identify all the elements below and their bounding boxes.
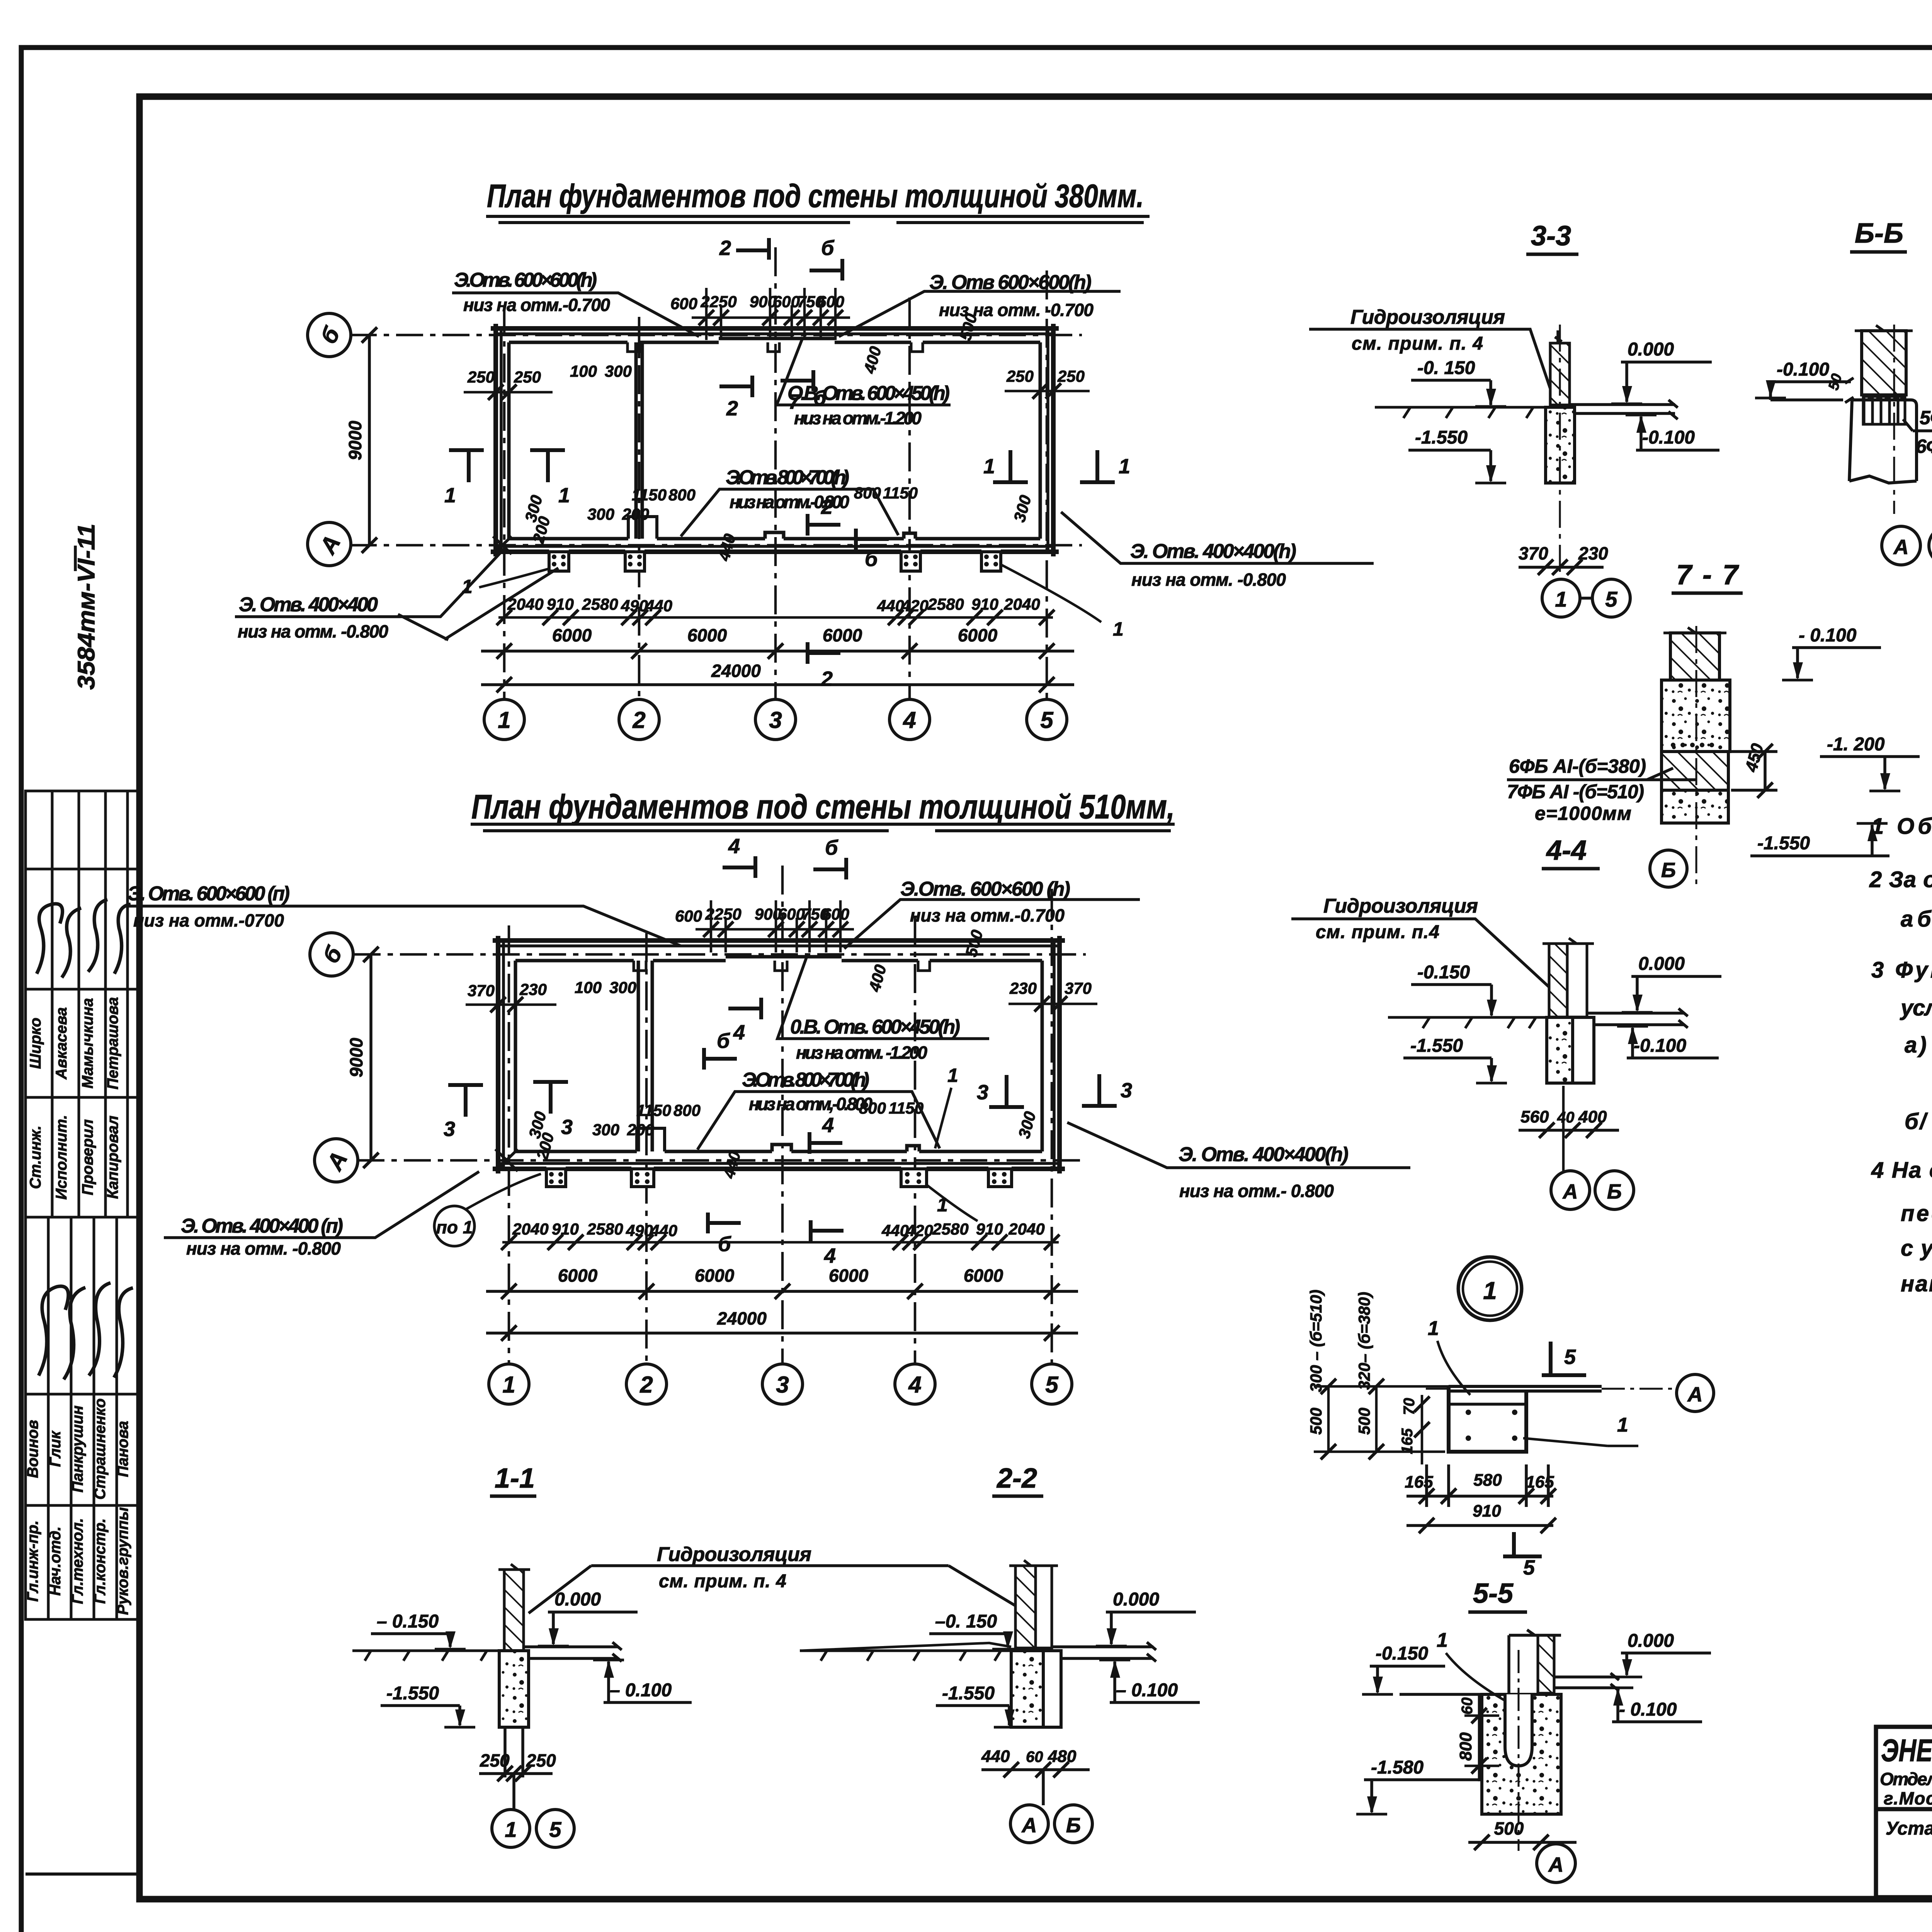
svg-text:б/ грунтовые воды отсутс: б/ грунтовые воды отсутствуют.	[1905, 1109, 1932, 1134]
section 4-4 wall	[1549, 944, 1567, 1017]
svg-text:Э. Отв. 400×400 (п): Э. Отв. 400×400 (п)	[181, 1215, 343, 1237]
svg-text:2: 2	[821, 667, 833, 690]
svg-text:Б: Б	[1661, 859, 1676, 882]
svg-text:6ФбАI - (б=510): 6ФбАI - (б=510)	[1916, 435, 1932, 457]
svg-text:5-5: 5-5	[1473, 1578, 1514, 1609]
section 1-1 wall	[504, 1570, 524, 1651]
svg-text:1: 1	[1437, 1629, 1448, 1651]
plan2 po1 circle	[434, 1206, 474, 1246]
svg-text:5: 5	[1045, 1372, 1059, 1398]
svg-text:2580: 2580	[932, 1220, 968, 1238]
plan1 250 dim right	[1005, 383, 1090, 399]
svg-text:250: 250	[1006, 367, 1034, 385]
svg-text:4: 4	[824, 1244, 836, 1267]
svg-text:4: 4	[822, 1114, 834, 1137]
plan1 9000 dim line	[362, 327, 377, 553]
svg-text:Гл.констр.: Гл.констр.	[92, 1518, 109, 1604]
section 5-5 U channel	[1505, 1694, 1532, 1766]
section 2-2 axis circles A B	[1042, 1770, 1045, 1805]
sidebar upper table titles column	[27, 997, 121, 1199]
svg-text:1: 1	[983, 455, 995, 478]
plan1 section mark 1 right inner	[993, 450, 1028, 482]
plan2 section mark 4 bottom pair	[810, 1132, 842, 1154]
plan1 right wall	[1040, 324, 1053, 556]
plan1 6000 labels	[552, 625, 998, 645]
plan2 top wall	[493, 940, 1065, 971]
svg-text:0.000: 0.000	[1638, 954, 1685, 974]
svg-text:Петрашова: Петрашова	[104, 997, 121, 1089]
plan1 section mark 1 left outer	[449, 450, 484, 482]
svg-text:300: 300	[587, 505, 614, 523]
svg-text:Установка синхронных: Установка синхронных	[1886, 1818, 1932, 1839]
detail 1 section mark 5 top	[1542, 1342, 1586, 1375]
svg-text:6000: 6000	[829, 1265, 869, 1286]
svg-text:800: 800	[668, 486, 696, 504]
svg-text:Панова: Панова	[114, 1421, 131, 1477]
plan2 leader L4	[697, 1092, 940, 1150]
plan1 axis circle A	[308, 522, 351, 566]
svg-text:б: б	[718, 1233, 731, 1256]
svg-text:1: 1	[1555, 587, 1567, 611]
svg-text:-1.550: -1.550	[942, 1683, 995, 1704]
plan2 small dim labels	[468, 905, 1092, 1240]
section 1-1 axis circles 1 5	[512, 1774, 515, 1810]
plan1 small dim labels	[467, 293, 1085, 615]
svg-text:1 Общие указания см. лист: 1 Общие указания см. лист АС-VI- 2 .	[1871, 814, 1932, 839]
svg-text:низ на отм. -0.700: низ на отм. -0.700	[939, 300, 1094, 320]
svg-text:250: 250	[1057, 367, 1085, 385]
svg-text:Э. Отв 600×600(h): Э. Отв 600×600(h)	[929, 271, 1092, 294]
plan2 section mark 3 right inner	[989, 1075, 1024, 1107]
section 2-2 ground line	[800, 1651, 1011, 1661]
plan1 left wall	[496, 324, 509, 556]
svg-text:0.000: 0.000	[1628, 1631, 1674, 1651]
plan1 leader L4	[681, 489, 898, 536]
svg-text:9000: 9000	[345, 420, 365, 460]
plan1 axis A dashdot	[350, 544, 1082, 547]
detail 1 circle A	[1677, 1374, 1714, 1412]
svg-text:А: А	[1548, 1853, 1564, 1876]
svg-text:250: 250	[480, 1750, 510, 1770]
svg-text:по 1: по 1	[436, 1217, 473, 1237]
svg-text:низ на отм.- 0.800: низ на отм.- 0.800	[1179, 1181, 1334, 1201]
plan1 grid numbers	[498, 707, 1054, 733]
svg-text:580: 580	[1473, 1471, 1502, 1490]
section B-B foundation outline	[1849, 400, 1917, 483]
svg-text:е=1000мм: е=1000мм	[1535, 803, 1631, 824]
plan2 grid verticals dashdot	[509, 866, 1052, 1364]
svg-text:-0. 150: -0. 150	[1417, 358, 1475, 378]
plan2 dim row 6000	[486, 1284, 1078, 1299]
detail 1 axis dashdot	[1426, 1388, 1677, 1390]
section 5-5 foundation	[1482, 1694, 1561, 1814]
plan1 leader L5 right	[1061, 512, 1374, 563]
svg-text:0.В. Отв. 600×450(h): 0.В. Отв. 600×450(h)	[790, 1016, 960, 1038]
plan2 section mark b bottom	[708, 1213, 741, 1233]
svg-text:– 0.100: – 0.100	[1116, 1680, 1178, 1701]
plan1 dim row 6000	[481, 643, 1074, 659]
plan1 grid circles row	[484, 699, 1067, 740]
section 3-3 floor slab	[1570, 400, 1678, 419]
svg-text:250: 250	[514, 368, 541, 386]
plan1 small dims row	[497, 610, 1054, 625]
svg-text:5: 5	[1564, 1345, 1576, 1369]
svg-text:с уплотняющей добавкой ( це: с уплотняющей добавкой ( церезит, алюмин…	[1901, 1236, 1932, 1261]
plan1 section mark 2 top	[736, 238, 769, 260]
svg-text:1150: 1150	[636, 1101, 671, 1119]
svg-text:-1.550: -1.550	[1410, 1036, 1463, 1056]
svg-text:натрия, битумные и латексные: натрия, битумные и латексные эмульсии).	[1901, 1271, 1932, 1296]
svg-text:низ на отм. -0.800: низ на отм. -0.800	[238, 621, 388, 641]
svg-text:60: 60	[1459, 1697, 1476, 1715]
plan2 partition wall grid2	[638, 961, 652, 1151]
svg-text:370: 370	[1065, 979, 1092, 997]
plan2 leader L6 left	[164, 1172, 479, 1238]
section 1-1 foundation	[499, 1651, 529, 1727]
svg-text:Э.Отв. 800×700(h): Э.Отв. 800×700(h)	[726, 466, 849, 489]
plan1 texts	[314, 293, 1085, 733]
svg-text:6ФБ АI-(б=380): 6ФБ АI-(б=380)	[1509, 755, 1646, 777]
svg-text:24000: 24000	[717, 1308, 767, 1328]
section 1-1 floor slab	[524, 1642, 622, 1662]
svg-text:низ на отм,-0.800: низ на отм,-0.800	[749, 1094, 872, 1114]
title block grid	[1876, 1727, 1932, 1897]
svg-text:Б: Б	[1607, 1180, 1622, 1203]
svg-text:-1.550: -1.550	[1757, 833, 1810, 854]
svg-text:б: б	[825, 836, 838, 859]
svg-text:см. прим. п.4: см. прим. п.4	[1316, 922, 1439, 942]
svg-text:600: 600	[817, 293, 844, 311]
svg-text:320– (б=380): 320– (б=380)	[1355, 1292, 1373, 1390]
svg-text:План фундаментов под стены то: План фундаментов под стены толщиной 380м…	[487, 178, 1144, 214]
plan1 bottom wall	[491, 517, 1059, 552]
svg-text:230: 230	[1009, 979, 1037, 997]
svg-text:-0.100: -0.100	[1634, 1036, 1686, 1056]
svg-text:3584тм-VI-11: 3584тм-VI-11	[73, 524, 100, 690]
plan1 foundation pads	[549, 552, 1001, 571]
plan2 corner diagonals	[495, 1149, 518, 1171]
svg-text:1: 1	[505, 1817, 517, 1842]
svg-text:2: 2	[726, 397, 738, 420]
svg-text:9000: 9000	[346, 1037, 366, 1077]
svg-text:3: 3	[561, 1116, 573, 1139]
section 7-7 wall	[1670, 633, 1719, 680]
svg-text:– 0.100: – 0.100	[610, 1680, 672, 1701]
svg-text:1: 1	[444, 484, 456, 507]
svg-text:Нач.отд.: Нач.отд.	[47, 1526, 64, 1595]
svg-text:Страшненко: Страшненко	[92, 1398, 109, 1500]
plan2 section mark 3 left outer	[448, 1085, 483, 1117]
section 4-4 floor slab	[1587, 1009, 1688, 1028]
svg-text:Исполнит.: Исполнит.	[53, 1115, 70, 1200]
svg-text:-0.100: -0.100	[1642, 427, 1695, 448]
svg-text:А: А	[1021, 1814, 1037, 1837]
plan1 top dim ticks	[692, 288, 850, 340]
svg-text:Руков.группы: Руков.группы	[114, 1507, 131, 1615]
svg-text:условия:: условия:	[1900, 995, 1932, 1020]
plan2 texts	[318, 905, 1092, 1398]
svg-text:24000: 24000	[711, 661, 761, 681]
svg-text:Проверил: Проверил	[79, 1119, 96, 1195]
plan2 section mark 3 right outer	[1082, 1074, 1117, 1106]
svg-text:План фундаментов под стены то: План фундаментов под стены толщиной 510м…	[471, 787, 1175, 826]
svg-text:1: 1	[947, 1065, 958, 1086]
svg-text:- 0.100: - 0.100	[1799, 625, 1857, 646]
plan1 top wall	[491, 328, 1059, 352]
svg-text:600: 600	[773, 293, 800, 311]
svg-text:2: 2	[639, 1372, 653, 1398]
svg-text:370: 370	[1519, 543, 1548, 563]
section 3-3 ground line	[1375, 407, 1550, 418]
svg-text:230: 230	[519, 980, 547, 998]
svg-text:165: 165	[1526, 1473, 1554, 1492]
svg-text:ЭНЕРГОСЕТЬПРОЕКТ: ЭНЕРГОСЕТЬПРОЕКТ	[1881, 1733, 1932, 1768]
svg-text:Э.Отв. 800×700(h): Э.Отв. 800×700(h)	[742, 1069, 869, 1091]
svg-text:4: 4	[903, 707, 916, 733]
detail 1 wall lines	[1449, 1386, 1602, 1391]
svg-text:420: 420	[901, 597, 929, 615]
svg-text:1150: 1150	[883, 484, 918, 502]
svg-text:440: 440	[881, 1221, 909, 1240]
section 5-5 wall	[1538, 1635, 1554, 1693]
svg-text:1: 1	[937, 1194, 948, 1216]
svg-text:б: б	[813, 386, 827, 410]
svg-text:-1.550: -1.550	[1415, 427, 1468, 448]
svg-text:Б-Б: Б-Б	[1855, 218, 1903, 249]
plan2 section mark b mid	[704, 1048, 737, 1070]
svg-text:6000: 6000	[558, 1265, 598, 1286]
svg-text:910: 910	[976, 1220, 1003, 1238]
svg-text:3: 3	[977, 1081, 988, 1104]
plan1 axis circle B	[308, 313, 351, 357]
svg-text:Авкасева: Авкасева	[53, 1007, 70, 1080]
svg-text:Капировал: Капировал	[104, 1116, 121, 1199]
plan1 leader L6 left	[235, 549, 558, 640]
svg-text:600: 600	[778, 905, 805, 923]
plan1 250 dim left	[464, 384, 553, 400]
svg-text:2580: 2580	[587, 1220, 623, 1238]
svg-text:А: А	[1893, 536, 1909, 559]
svg-text:5ФбАI - (б=380): 5ФбАI - (б=380)	[1920, 407, 1932, 429]
plan2 leader L1	[124, 906, 681, 946]
plan1 section mark 2 inner	[719, 376, 752, 397]
svg-text:-1. 200: -1. 200	[1827, 734, 1885, 755]
plan2 bottom wall	[493, 1128, 1065, 1169]
svg-text:низ на отм. -0.800: низ на отм. -0.800	[1131, 570, 1286, 590]
plan2 9000 dim line	[363, 947, 379, 1168]
svg-text:5: 5	[549, 1817, 561, 1842]
svg-text:песчаная гидроизоляция сос: песчаная гидроизоляция состава 1:2	[1901, 1201, 1932, 1226]
detail 1 section mark 5 bottom	[1503, 1532, 1542, 1556]
svg-text:300 – (б=510): 300 – (б=510)	[1307, 1289, 1325, 1392]
svg-text:4: 4	[733, 1021, 745, 1044]
svg-text:б: б	[821, 236, 835, 260]
svg-text:-0.150: -0.150	[1417, 962, 1470, 983]
section 3-3 foundation	[1546, 407, 1575, 483]
detail 1 block	[1449, 1386, 1526, 1452]
plan2 section mark b top	[813, 858, 846, 879]
svg-text:2040: 2040	[1008, 1220, 1044, 1238]
section 1-1 ground line	[352, 1651, 504, 1661]
sidebar upper signatures squiggles	[37, 900, 131, 978]
section 5-5 floor slab	[1554, 1673, 1619, 1691]
svg-text:3 Фундаменты запроектирован: 3 Фундаменты запроектированы на следующи…	[1871, 957, 1932, 983]
svg-text:4-4: 4-4	[1546, 835, 1587, 866]
svg-text:490: 490	[621, 597, 648, 615]
section B-B circles A B	[1882, 526, 1920, 565]
sidebar doc number 3584tm-VI-11	[73, 524, 100, 690]
svg-text:800: 800	[1456, 1732, 1475, 1761]
svg-text:г.Москва: г.Москва	[1884, 1788, 1932, 1808]
svg-text:910: 910	[552, 1220, 579, 1238]
section 7-7 block2 hatched	[1662, 752, 1728, 790]
svg-text:2040: 2040	[512, 1220, 548, 1238]
plan1 section mark 1 right outer	[1080, 450, 1115, 482]
svg-text:Б: Б	[1066, 1814, 1081, 1837]
plan1 corner diagonals	[493, 536, 512, 554]
svg-text:1: 1	[1617, 1414, 1628, 1436]
svg-text:6000: 6000	[695, 1265, 735, 1286]
svg-text:6000: 6000	[823, 625, 862, 645]
svg-text:3: 3	[444, 1117, 455, 1141]
svg-text:2 За отметку чистого пол: 2 За отметку чистого пола 0.000 принята	[1869, 867, 1932, 892]
svg-text:2: 2	[719, 236, 731, 260]
svg-text:низ на отм.-0.700: низ на отм.-0.700	[463, 295, 610, 315]
svg-text:4: 4	[728, 835, 740, 858]
detail 1 big circle	[1458, 1257, 1522, 1320]
sidebar bottom cell line	[26, 1872, 139, 1876]
svg-text:-0.150: -0.150	[1376, 1643, 1428, 1664]
svg-text:800: 800	[673, 1101, 701, 1119]
svg-text:6000: 6000	[687, 625, 727, 645]
sidebar upper signature table	[26, 791, 139, 1217]
plan2 6000 labels	[558, 1265, 1003, 1286]
svg-text:0.000: 0.000	[554, 1589, 601, 1610]
plan1 section mark b top	[810, 259, 842, 281]
svg-text:600: 600	[670, 294, 697, 313]
svg-text:Э. Отв. 400×400(h): Э. Отв. 400×400(h)	[1130, 540, 1296, 563]
svg-text:600: 600	[675, 907, 702, 925]
plan2 axis A dashdot	[357, 1159, 1086, 1162]
svg-text:800: 800	[854, 484, 881, 502]
svg-text:низ на отм. -0.800: низ на отм. -0.800	[186, 1238, 341, 1259]
svg-text:440: 440	[877, 597, 904, 615]
svg-text:Ширко: Ширко	[27, 1018, 44, 1069]
plan2 leader L2	[844, 900, 1140, 949]
plan2 leader 1 pads right	[927, 1185, 978, 1221]
svg-text:165: 165	[1399, 1428, 1416, 1454]
svg-text:Глик: Глик	[47, 1430, 64, 1467]
svg-text:-1.580: -1.580	[1371, 1757, 1423, 1778]
svg-text:– 0.150: – 0.150	[377, 1611, 439, 1632]
svg-text:1: 1	[1113, 618, 1124, 640]
plan1 leader L1	[452, 293, 699, 337]
plan2 foundation pads	[546, 1169, 1012, 1187]
svg-text:Ст.инж.: Ст.инж.	[27, 1126, 44, 1189]
plan2 section mark 4 top	[723, 856, 755, 878]
plan1 dim row 24000	[481, 677, 1074, 692]
svg-text:6000: 6000	[552, 625, 592, 645]
svg-text:1: 1	[1119, 455, 1130, 478]
plan2 axis B dashdot	[354, 953, 1086, 956]
svg-text:2: 2	[821, 495, 833, 519]
svg-text:40: 40	[1557, 1109, 1575, 1126]
svg-text:165: 165	[1405, 1473, 1433, 1492]
plan2 axis circle A	[315, 1139, 358, 1182]
svg-text:1: 1	[462, 576, 473, 597]
svg-text:910: 910	[1473, 1502, 1501, 1520]
svg-text:100: 100	[570, 362, 597, 380]
section 4-4 foundation	[1547, 1017, 1573, 1083]
plan1 leader 1 pads right	[1002, 565, 1101, 622]
svg-text:7: 7	[788, 390, 801, 413]
svg-text:910: 910	[547, 595, 574, 613]
svg-text:2580: 2580	[927, 595, 964, 613]
svg-text:низ на отм.-1.200: низ на отм.-1.200	[794, 408, 922, 428]
plan1 title underline	[486, 216, 1150, 223]
svg-text:см. прим. п. 4: см. прим. п. 4	[659, 1571, 786, 1592]
svg-text:500: 500	[1494, 1818, 1524, 1838]
svg-text:1: 1	[502, 1372, 515, 1398]
svg-text:2040: 2040	[1003, 595, 1040, 613]
svg-text:440: 440	[645, 597, 672, 615]
svg-text:440: 440	[981, 1747, 1010, 1766]
svg-text:6000: 6000	[964, 1265, 1003, 1286]
svg-text:7 - 7: 7 - 7	[1676, 560, 1739, 590]
section 2-2 foundation	[1011, 1651, 1043, 1727]
svg-text:Э. Отв. 600×600 (п): Э. Отв. 600×600 (п)	[128, 883, 290, 905]
plan2 title underline	[471, 824, 1175, 831]
section 7-7 block3 concrete	[1662, 790, 1728, 823]
svg-text:Гидроизоляция: Гидроизоляция	[1323, 895, 1478, 917]
svg-text:Гидроизоляция: Гидроизоляция	[1350, 306, 1505, 328]
section 2-2 floor slab	[1052, 1642, 1156, 1662]
svg-text:3: 3	[776, 1372, 789, 1398]
svg-text:б: б	[865, 548, 878, 571]
svg-text:3: 3	[1121, 1079, 1132, 1102]
plan2 370 230 dim left	[466, 997, 556, 1012]
plan2 leader L3	[777, 954, 989, 1039]
svg-text:А: А	[1687, 1383, 1703, 1406]
svg-text:3: 3	[769, 707, 782, 733]
svg-text:4 На отметке - 0.030 устра: 4 На отметке - 0.030 устраивается цемент…	[1871, 1158, 1932, 1183]
svg-text:0.000: 0.000	[1113, 1589, 1159, 1610]
section B-B anchor element	[1863, 396, 1905, 424]
section 5-5 circle A	[1537, 1844, 1575, 1883]
svg-text:- 0.100: - 0.100	[1619, 1699, 1677, 1720]
svg-text:1150: 1150	[632, 486, 667, 504]
svg-text:490: 490	[626, 1221, 653, 1240]
svg-text:300: 300	[609, 978, 636, 997]
svg-text:370: 370	[468, 981, 495, 1000]
svg-text:200: 200	[622, 505, 649, 523]
sidebar lower signature table	[26, 1217, 139, 1619]
plan1 section mark b bottom	[856, 529, 889, 549]
svg-text:Э.Отв. 600×600(h): Э.Отв. 600×600(h)	[454, 269, 597, 291]
svg-text:6000: 6000	[958, 625, 998, 645]
svg-text:500: 500	[1307, 1408, 1325, 1435]
section 7-7 block1 concrete	[1662, 680, 1730, 752]
plan1 axis B dashdot	[350, 334, 1082, 337]
plan2 grid circles row	[489, 1364, 1072, 1404]
svg-text:Э.Отв. 600×600 (h): Э.Отв. 600×600 (h)	[900, 878, 1070, 900]
svg-text:Э. Отв. 400×400(h): Э. Отв. 400×400(h)	[1179, 1143, 1349, 1166]
svg-text:см. прим. п. 4: см. прим. п. 4	[1352, 333, 1483, 354]
svg-text:низ на отм.-0700: низ на отм.-0700	[133, 910, 284, 930]
svg-text:250: 250	[467, 368, 495, 386]
svg-text:2250: 2250	[700, 293, 736, 311]
plan2 grid numbers	[502, 1372, 1059, 1398]
